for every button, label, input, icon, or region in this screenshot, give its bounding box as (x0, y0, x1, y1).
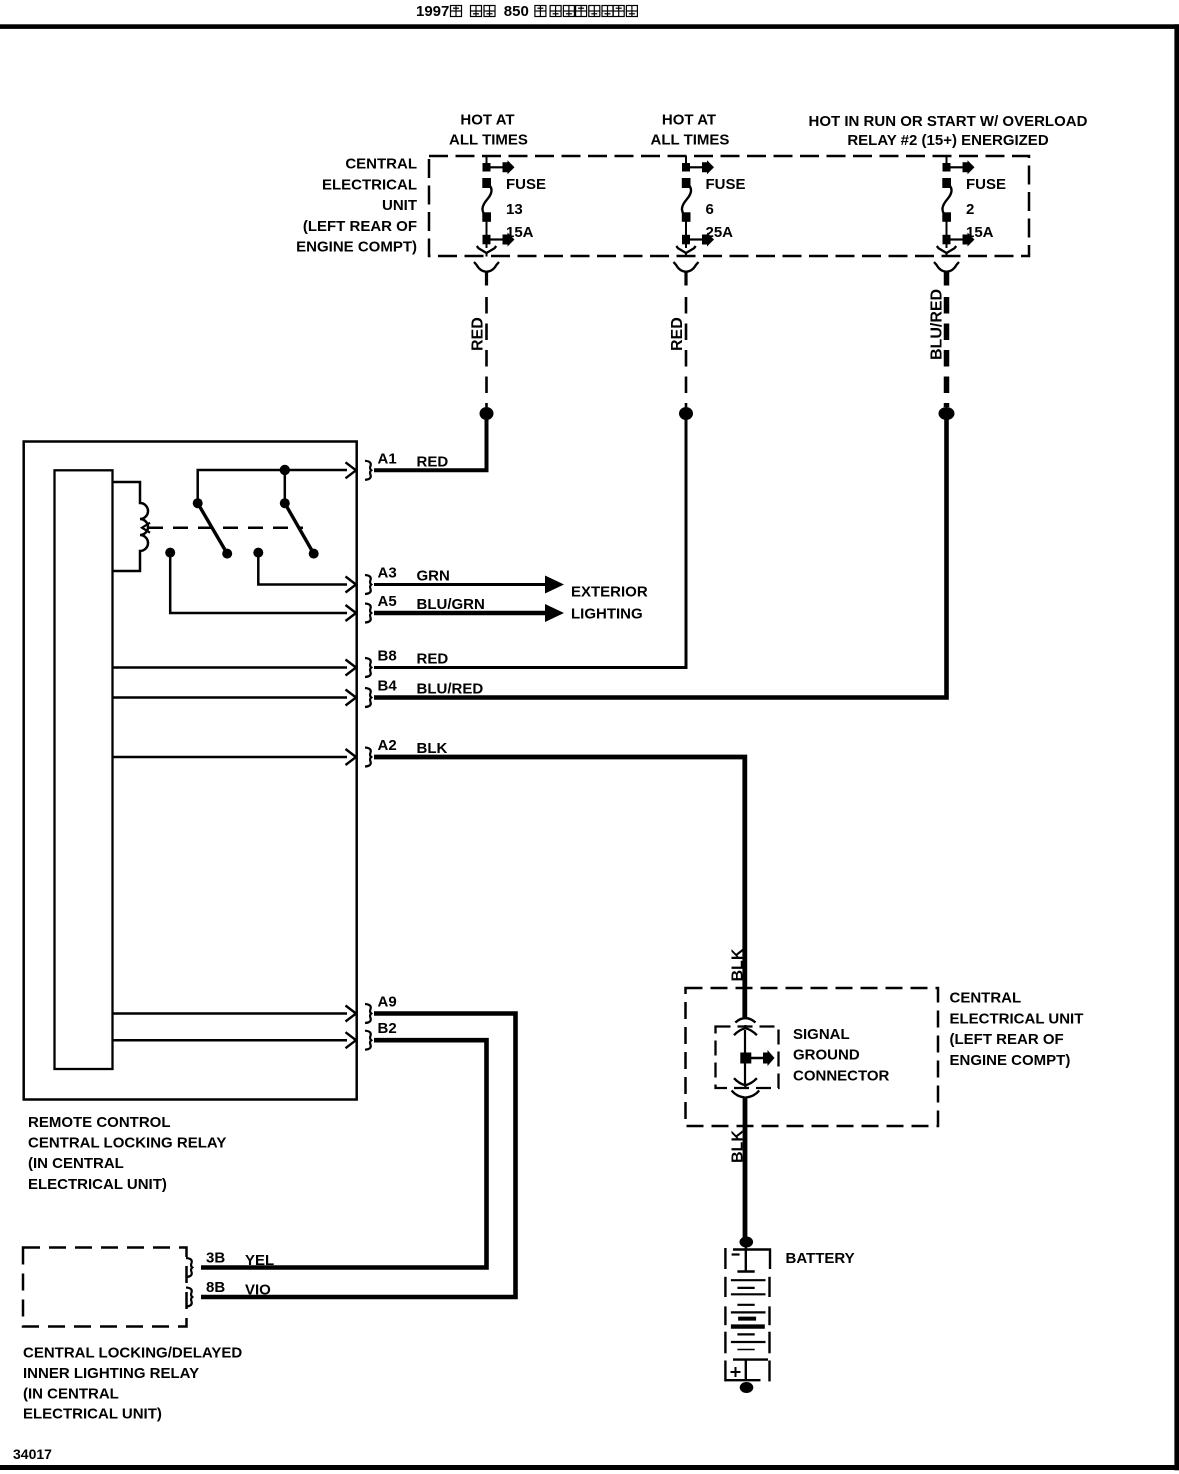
wire board to B4 (113, 696, 348, 699)
svg-text:ENGINE COMPT): ENGINE COMPT) (296, 239, 417, 256)
wire board to B8 (113, 666, 348, 669)
wire RED from node to B8 (374, 413, 686, 668)
heading HOT AT ALL TIMES (fuse 13) (449, 112, 528, 149)
battery negative terminal node (740, 1237, 754, 1248)
svg-text:ELECTRICAL UNIT: ELECTRICAL UNIT (950, 1010, 1084, 1027)
wire RED dashed below fuse 6 (685, 297, 688, 407)
svg-text:B4: B4 (378, 678, 398, 695)
svg-text:8B: 8B (206, 1279, 225, 1296)
terminal A9 connector (365, 1004, 371, 1023)
relay coil (113, 482, 149, 571)
switch 2 pivot (280, 498, 290, 508)
svg-text:CENTRAL: CENTRAL (950, 990, 1022, 1007)
coil actuator arrow (142, 523, 150, 533)
fuse 13 value labels (506, 176, 546, 241)
wire inside connector upper (744, 1030, 746, 1057)
svg-text:CENTRAL: CENTRAL (345, 156, 417, 173)
male terminal arrow up (734, 1025, 757, 1035)
junction node fuse 6 (679, 407, 693, 420)
wire BLU/GRN A5 to exterior lighting (374, 611, 546, 616)
svg-text:ENGINE COMPT): ENGINE COMPT) (950, 1052, 1071, 1069)
svg-text:HOT AT: HOT AT (460, 112, 514, 129)
switch 1 arm (198, 503, 228, 553)
wire contact to A3 (258, 553, 347, 585)
wire YEL branch from B2 (201, 1040, 487, 1267)
central locking/delayed inner lighting relay dashed box (23, 1248, 187, 1327)
terminal B4 connector (365, 688, 371, 707)
terminal A5 connector (365, 604, 371, 623)
svg-text:ELECTRICAL UNIT): ELECTRICAL UNIT) (23, 1406, 162, 1423)
text EXTERIOR LIGHTING (571, 584, 648, 623)
wire board to B2 (113, 1039, 348, 1042)
label central electrical unit (top) (296, 156, 417, 256)
switch 2 arm (285, 503, 314, 553)
battery symbol (725, 1246, 770, 1381)
fuse 2 (934, 156, 975, 286)
label remote control central locking relay (28, 1114, 226, 1193)
terminal A3 connector (365, 575, 371, 594)
terminal B2 arrow (346, 1032, 357, 1048)
wire BLK ground connector to battery (743, 1097, 748, 1242)
svg-text:(IN CENTRAL: (IN CENTRAL (23, 1385, 119, 1402)
terminal A9 arrow (346, 1006, 357, 1022)
svg-text:CENTRAL LOCKING/DELAYED: CENTRAL LOCKING/DELAYED (23, 1345, 242, 1362)
label central electrical unit (right) (950, 990, 1084, 1069)
border frame top (0, 24, 1179, 29)
remote control central locking relay box (24, 442, 357, 1100)
signal ground node (740, 1053, 751, 1064)
svg-text:ELECTRICAL UNIT): ELECTRICAL UNIT) (28, 1176, 167, 1193)
switch 1 pivot (193, 498, 203, 508)
central electrical unit dashed box (429, 156, 1029, 256)
svg-text:BLK: BLK (730, 948, 747, 981)
terminal 3B connector (186, 1258, 192, 1277)
svg-text:ALL TIMES: ALL TIMES (449, 132, 528, 149)
svg-text:ELECTRICAL: ELECTRICAL (322, 176, 417, 193)
svg-text:A2: A2 (378, 737, 397, 754)
svg-text:FUSE: FUSE (706, 176, 746, 193)
wire BLU/RED dashed below fuse 2 (944, 297, 950, 407)
svg-text:BLK: BLK (417, 740, 448, 757)
wire node to switch 2 pivot (284, 470, 287, 503)
svg-text:YEL: YEL (245, 1252, 274, 1269)
heading HOT IN RUN OR START (fuse 2) (809, 113, 1088, 149)
battery positive terminal node (740, 1382, 754, 1393)
relay inner board (55, 470, 113, 1069)
page title: 1997 Volvo 850 remote central locking circuit diagram (416, 3, 637, 20)
terminal 8B connector (186, 1288, 192, 1307)
connector cup below inner box (732, 1091, 760, 1098)
svg-text:BLK: BLK (730, 1130, 747, 1163)
fuse 13 (474, 156, 515, 286)
signal ground arrow (745, 1057, 764, 1060)
wire board to A2 (113, 756, 348, 759)
junction node on A1 wire (280, 465, 290, 475)
svg-text:A9: A9 (378, 994, 397, 1011)
fuse 2 value labels (966, 176, 1006, 241)
wire BLK from A2 down (374, 757, 745, 1017)
svg-text:RED: RED (669, 317, 686, 351)
svg-text:15A: 15A (506, 224, 534, 241)
svg-text:SIGNAL: SIGNAL (793, 1026, 850, 1043)
svg-text:BLU/GRN: BLU/GRN (417, 596, 485, 613)
svg-text:INNER LIGHTING RELAY: INNER LIGHTING RELAY (23, 1365, 199, 1382)
junction node fuse 13 (480, 407, 494, 420)
wire GRN A3 to exterior lighting (374, 583, 546, 586)
terminal B8 connector (365, 658, 371, 677)
svg-text:REMOTE CONTROL: REMOTE CONTROL (28, 1114, 171, 1131)
terminal A1 connector (365, 461, 371, 480)
wire contact to A5 (170, 553, 347, 613)
svg-text:VIO: VIO (245, 1282, 271, 1299)
connector cap above inner box (735, 1018, 755, 1022)
svg-text:CONNECTOR: CONNECTOR (793, 1068, 890, 1085)
label central locking/delayed inner lighting relay (23, 1345, 242, 1423)
border frame right (1174, 24, 1179, 1470)
contact dot to A3 (253, 548, 263, 558)
wire inside connector lower (744, 1058, 746, 1084)
svg-text:6: 6 (706, 201, 714, 218)
terminal A5 arrow (346, 605, 357, 621)
signal ground inner dashed box (716, 1027, 779, 1089)
svg-text:HOT AT: HOT AT (662, 112, 716, 129)
contact dot to A5 (165, 548, 175, 558)
svg-text:BLU/RED: BLU/RED (929, 289, 946, 360)
border frame bottom (0, 1465, 1179, 1470)
svg-text:RED: RED (417, 651, 449, 668)
svg-text:13: 13 (506, 201, 523, 218)
signal ground outer dashed box (686, 988, 939, 1126)
fuse 6 (674, 156, 715, 286)
terminal A2 connector (365, 748, 371, 767)
fuse 6 value labels (706, 176, 746, 241)
svg-text:LIGHTING: LIGHTING (571, 606, 643, 623)
wire BLU/RED from node to B4 (374, 413, 947, 698)
wire VIO branch from A9 (201, 1014, 516, 1298)
svg-text:HOT IN RUN OR START W/ OVERLOA: HOT IN RUN OR START W/ OVERLOAD (809, 113, 1088, 130)
svg-text:34017: 34017 (13, 1446, 52, 1462)
svg-text:RED: RED (417, 453, 449, 470)
text SIGNAL GROUND CONNECTOR (793, 1026, 890, 1085)
junction node fuse 2 (939, 407, 955, 420)
svg-text:RELAY #2 (15+) ENERGIZED: RELAY #2 (15+) ENERGIZED (847, 132, 1048, 149)
wire board to A9 (113, 1012, 348, 1015)
actuator dashed linkage (148, 526, 303, 529)
svg-text:BLU/RED: BLU/RED (417, 681, 484, 698)
terminal B8 arrow (346, 660, 357, 676)
svg-text:1997: 1997 (416, 3, 449, 20)
terminal A3 arrow (346, 577, 357, 593)
svg-text:(LEFT REAR OF: (LEFT REAR OF (303, 218, 417, 235)
terminal A1 arrow (346, 462, 357, 478)
terminal B4 arrow (346, 690, 357, 706)
svg-text:EXTERIOR: EXTERIOR (571, 584, 648, 601)
svg-text:(IN CENTRAL: (IN CENTRAL (28, 1155, 124, 1172)
svg-text:GROUND: GROUND (793, 1047, 860, 1064)
female terminal arrow down (734, 1078, 757, 1088)
svg-text:2: 2 (966, 201, 974, 218)
svg-text:GRN: GRN (417, 568, 450, 585)
svg-text:UNIT: UNIT (382, 197, 417, 214)
switch 1 arm end dot (222, 549, 232, 559)
terminal B2 connector (365, 1031, 371, 1050)
terminal A2 arrow (346, 749, 357, 765)
wire RED from node to A1 (374, 413, 487, 470)
arrow exterior lighting (BLU/GRN) (545, 604, 564, 622)
svg-text:BATTERY: BATTERY (786, 1250, 855, 1267)
arrow exterior lighting (GRN) (545, 576, 564, 594)
switch 2 arm end dot (309, 549, 319, 559)
svg-text:A3: A3 (378, 565, 397, 582)
heading HOT AT ALL TIMES (fuse 6) (651, 112, 730, 149)
svg-text:CENTRAL LOCKING RELAY: CENTRAL LOCKING RELAY (28, 1135, 226, 1152)
svg-text:15A: 15A (966, 224, 994, 241)
svg-text:RED: RED (470, 317, 487, 351)
svg-text:A1: A1 (378, 450, 397, 467)
svg-text:3B: 3B (206, 1250, 225, 1267)
svg-text:25A: 25A (706, 224, 734, 241)
wire RED dashed below fuse 13 (485, 297, 488, 407)
svg-text:FUSE: FUSE (966, 176, 1006, 193)
svg-text:B2: B2 (378, 1020, 397, 1037)
switch common wire to A1 (198, 470, 347, 503)
svg-text:A5: A5 (378, 593, 397, 610)
svg-text:(LEFT REAR OF: (LEFT REAR OF (950, 1031, 1064, 1048)
svg-text:FUSE: FUSE (506, 176, 546, 193)
svg-text:ALL TIMES: ALL TIMES (651, 132, 730, 149)
svg-text:B8: B8 (378, 648, 397, 665)
svg-text:850: 850 (504, 3, 529, 20)
